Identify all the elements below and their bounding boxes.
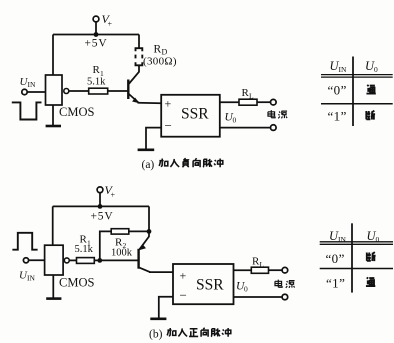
svg-text:+: +	[108, 20, 113, 29]
wire rail to CMOS top (b)	[52, 206, 54, 245]
wire +5V rail (b)	[53, 205, 149, 207]
svg-text:−: −	[165, 118, 172, 133]
table (a) cell 断	[366, 111, 375, 120]
wire R1 to base (a)	[108, 90, 129, 92]
block SSR (a)	[161, 95, 220, 137]
resistor R1 (b)	[77, 258, 95, 264]
transistor Q2 emitter with arrow (PNP)	[140, 231, 150, 249]
svg-text:IN: IN	[339, 65, 347, 74]
svg-text:+: +	[180, 269, 187, 283]
svg-text:0: 0	[233, 116, 237, 125]
wire emitter to SSR + (a)	[138, 102, 162, 104]
wire SSR top output to RL (b)	[234, 269, 252, 271]
wire base node up to R2 (b)	[100, 231, 111, 260]
svg-text:100k: 100k	[111, 248, 133, 259]
wire R2 to +5V line (b)	[129, 230, 149, 232]
wire SSR top output to RL (a)	[220, 101, 239, 103]
svg-text:L: L	[249, 92, 254, 101]
wire input to CMOS (a)	[27, 91, 45, 93]
transistor Q2 collector	[139, 267, 150, 272]
junction dot on +5V rail (b)	[98, 204, 103, 209]
svg-text:0: 0	[244, 285, 248, 294]
terminal top right (a)	[271, 99, 277, 105]
svg-text:IN: IN	[27, 274, 35, 283]
wire V+ to rail (a)	[95, 22, 97, 35]
svg-text:0: 0	[376, 235, 380, 244]
svg-text:IN: IN	[28, 80, 36, 89]
terminal top right (b)	[282, 267, 288, 273]
waveform negative pulse (a)	[12, 102, 42, 119]
gate CMOS (a)	[46, 75, 63, 105]
bubble on CMOS output (a)	[64, 89, 69, 94]
junction dot on +5V rail (a)	[94, 32, 99, 37]
svg-text:CMOS: CMOS	[59, 105, 94, 119]
junction dot emitter node (b)	[147, 229, 152, 234]
svg-text:(300Ω): (300Ω)	[143, 55, 177, 67]
svg-text:“0”: “0”	[326, 251, 345, 266]
wire SSR bottom output (b)	[234, 296, 283, 298]
resistor R2 (b)	[111, 229, 129, 234]
wire SSR minus to ground (b)	[159, 297, 173, 319]
wire V+ to rail (b)	[99, 193, 101, 207]
svg-text:5.1k: 5.1k	[75, 244, 94, 255]
svg-text:+5V: +5V	[85, 38, 108, 50]
waveform positive pulse (b)	[12, 233, 37, 250]
table (b) cell 通	[366, 277, 375, 286]
transistor Q1 collector	[128, 65, 139, 84]
svg-text:IN: IN	[338, 235, 346, 244]
svg-text:“1”: “1”	[326, 276, 345, 291]
gate CMOS (b)	[45, 245, 64, 275]
terminal V+ (a)	[93, 16, 99, 22]
table (b) middle rule	[320, 268, 393, 270]
ground of CMOS (b)	[46, 297, 61, 300]
terminal input UIN (b)	[23, 258, 28, 263]
terminal bottom right (b)	[282, 294, 288, 300]
wire rail right down to emitter node (b)	[148, 206, 150, 231]
bubble on CMOS output (b)	[64, 258, 69, 263]
resistor RD dashed (a)	[136, 48, 143, 51]
label 电源 power supply (b)	[275, 280, 282, 288]
wire SSR minus to ground (a)	[146, 128, 161, 150]
ground of SSR minus (b)	[150, 317, 166, 320]
table (a) vertical rule	[352, 57, 354, 127]
svg-text:CMOS: CMOS	[59, 276, 94, 290]
svg-text:R: R	[154, 44, 162, 56]
wire CMOS bottom to ground (b)	[52, 275, 54, 298]
terminal bottom right (a)	[271, 125, 277, 131]
block SSR (b)	[173, 264, 234, 304]
svg-text:−: −	[180, 288, 187, 303]
wire RL to terminal (b)	[269, 269, 283, 271]
transistor Q2 base bar	[137, 249, 139, 269]
terminal V+ (b)	[97, 187, 103, 193]
terminal input UIN (a)	[22, 89, 27, 94]
wire collector to SSR + (b)	[149, 271, 173, 273]
wire CMOS bottom to ground (a)	[52, 105, 54, 126]
wire rail to RD (a)	[138, 35, 140, 49]
wire +5V rail (a)	[53, 34, 139, 36]
table (b) header double rule	[320, 242, 393, 245]
resistor RL (b)	[251, 267, 268, 273]
svg-text:L: L	[260, 260, 265, 269]
transistor Q1 emitter with arrow	[128, 94, 138, 103]
wire rail to CMOS top (a)	[52, 35, 54, 76]
junction dot base node (b)	[97, 258, 102, 263]
svg-text:+: +	[111, 191, 116, 200]
svg-text:+: +	[165, 97, 172, 111]
svg-text:SSR: SSR	[196, 277, 224, 294]
table (b) cell 断	[367, 252, 376, 261]
wire input to CMOS (b)	[29, 259, 45, 261]
table (a) header double rule	[321, 75, 393, 78]
transistor Q1 base bar	[127, 80, 129, 100]
svg-text:+5V: +5V	[91, 210, 114, 222]
table (a) cell 通	[366, 85, 375, 94]
svg-text:“0”: “0”	[328, 82, 347, 97]
resistor RL (a)	[239, 99, 257, 105]
svg-text:“1”: “1”	[328, 109, 347, 124]
wire RL to terminal (a)	[257, 101, 271, 103]
svg-text:(a): (a)	[142, 159, 155, 171]
svg-text:SSR: SSR	[181, 106, 209, 123]
wire CMOS output to R1 (b)	[69, 259, 76, 261]
wire CMOS output to R1 (a)	[69, 90, 89, 92]
resistor R1 (a)	[89, 88, 108, 94]
svg-text:(b): (b)	[149, 329, 163, 341]
svg-text:5.1k: 5.1k	[87, 76, 106, 87]
ground of SSR minus (a)	[138, 149, 155, 152]
table (b) vertical rule	[351, 223, 353, 292]
ground of CMOS (a)	[46, 125, 61, 128]
svg-text:0: 0	[374, 65, 378, 74]
wire SSR bottom output (a)	[220, 127, 271, 129]
label 电源 power supply (a)	[268, 110, 275, 118]
wire R1 to base with node (b)	[94, 259, 138, 261]
table (a) middle rule	[321, 103, 393, 105]
